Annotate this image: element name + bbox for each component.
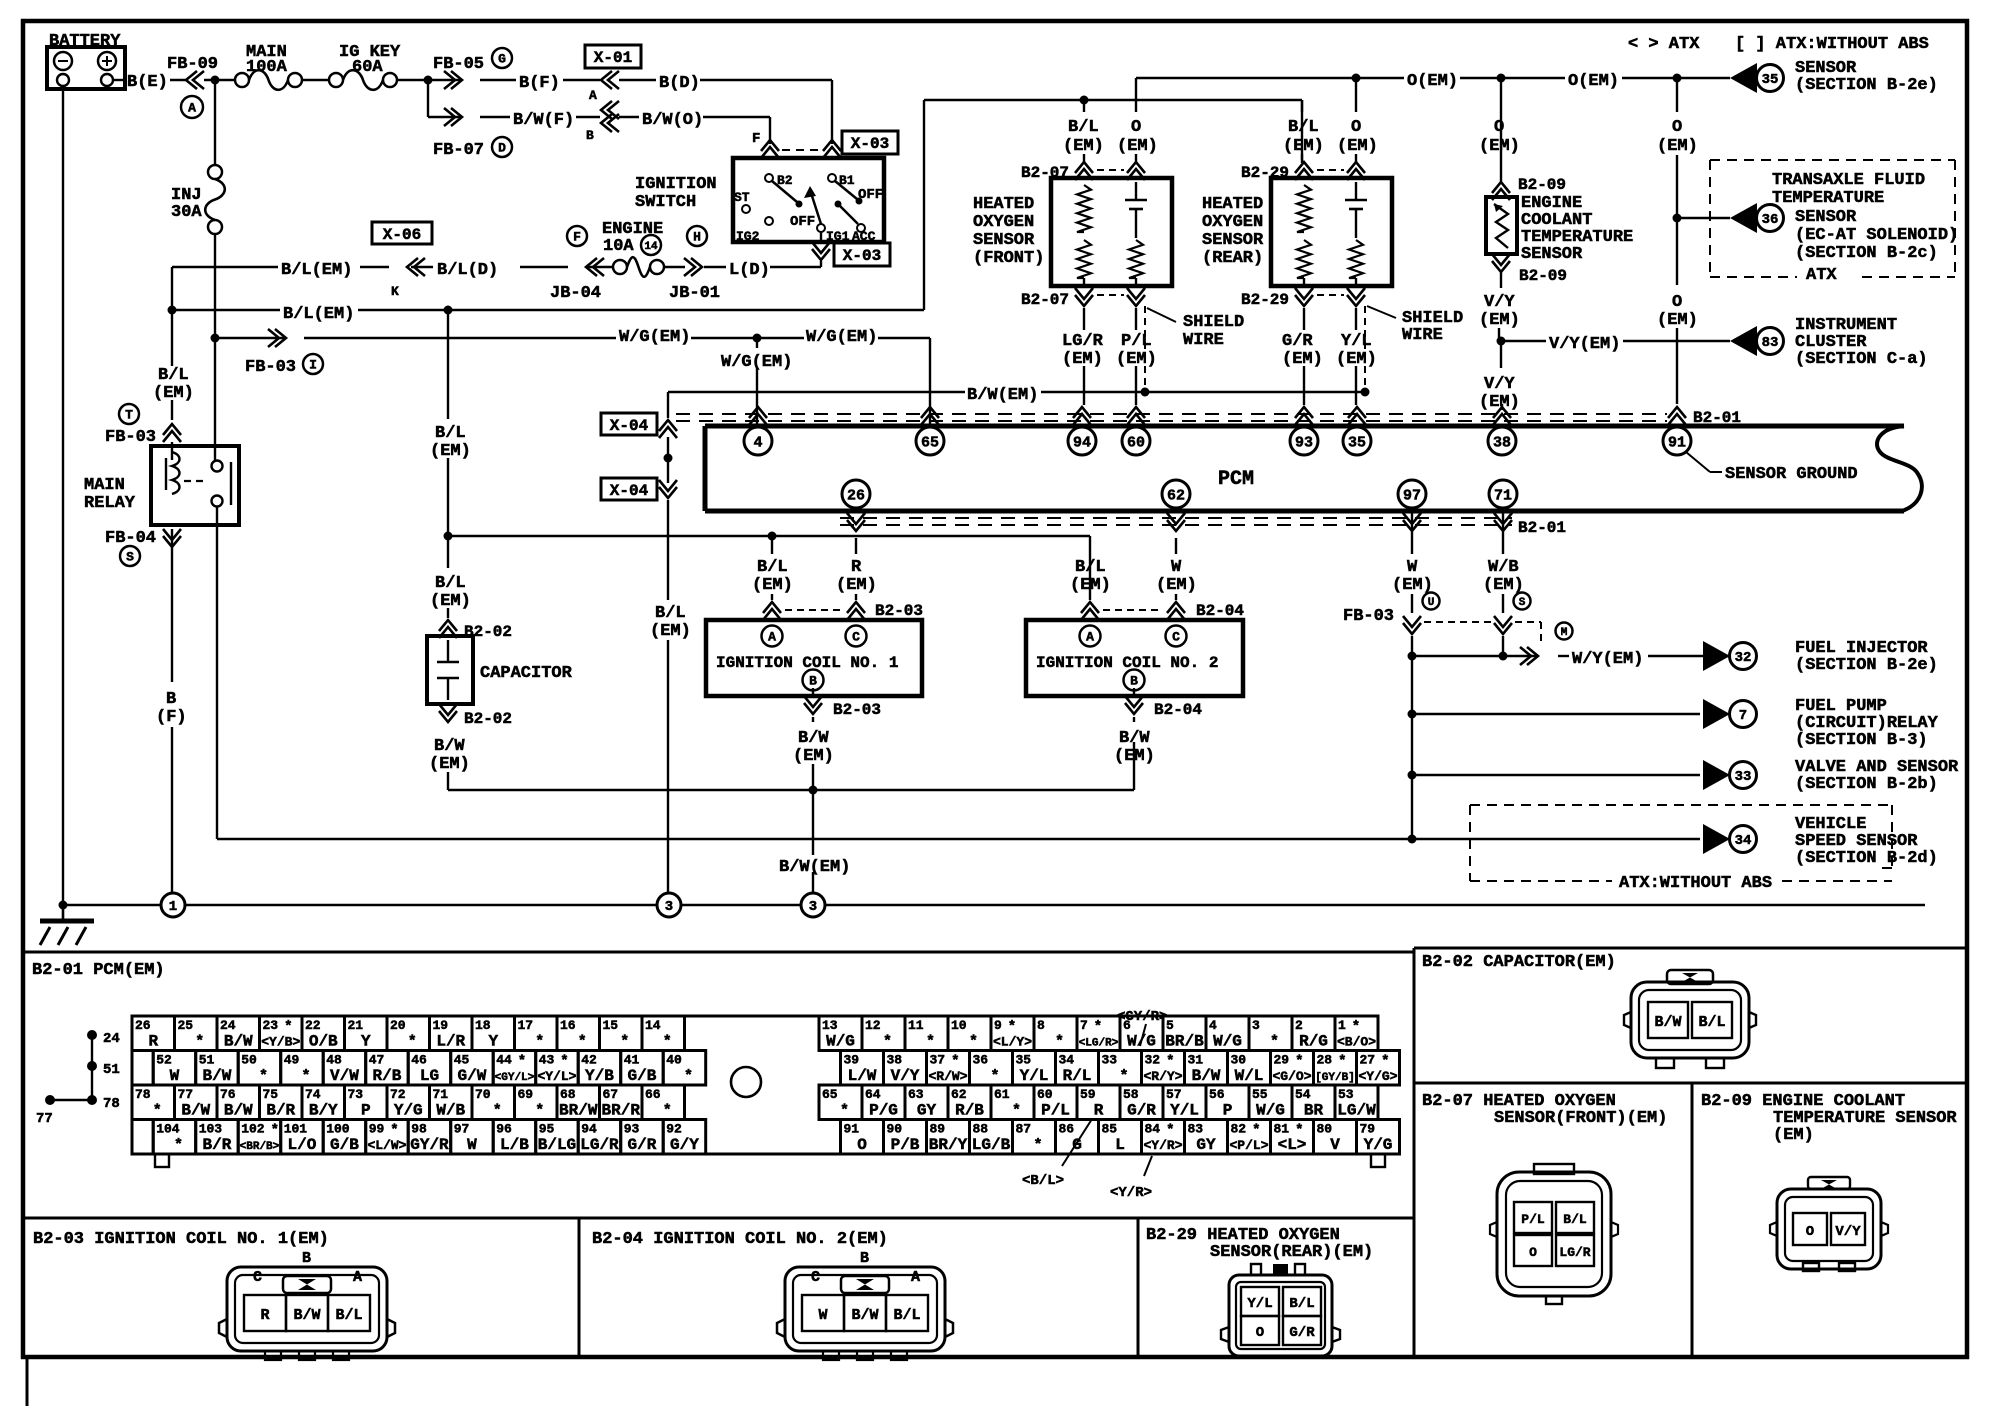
svg-text:B2-04: B2-04 [1196,602,1244,620]
circle S [1514,593,1531,610]
ATX without ABS dashed box [1470,804,1892,806]
svg-text:B/L: B/L [1288,118,1319,137]
junction node battery ground [62,89,64,905]
svg-text:91: 91 [844,1122,860,1137]
svg-text:20: 20 [390,1018,406,1033]
svg-text:Y/G: Y/G [394,1102,423,1120]
svg-text:78: 78 [103,1096,120,1112]
svg-text:B/W: B/W [1192,1067,1221,1085]
svg-text:<Y/G>: <Y/G> [1358,1069,1397,1084]
svg-text:21: 21 [348,1018,364,1033]
svg-text:101: 101 [284,1122,308,1137]
svg-text:*: * [1338,1054,1346,1070]
svg-text:(EM): (EM) [430,592,471,611]
connector X-06 chevron [411,266,433,268]
svg-text:11: 11 [908,1018,924,1033]
svg-text:O: O [1672,293,1682,312]
svg-text:55: 55 [1252,1087,1268,1102]
svg-text:X-04: X-04 [610,417,649,435]
svg-text:FB-07: FB-07 [433,141,484,160]
connector B2-09 chevron bottom [1492,261,1510,272]
label V/Y (EM) lower [1500,341,1502,368]
svg-text:X-04: X-04 [610,482,649,500]
svg-text:B2-09: B2-09 [1518,176,1566,194]
svg-text:B/W: B/W [1119,729,1150,748]
svg-text:*: * [195,1034,204,1051]
connector X-03 chevron top [823,140,841,151]
svg-text:76: 76 [220,1087,236,1102]
svg-text:(EM): (EM) [650,622,691,641]
svg-text:90: 90 [887,1122,903,1137]
junction node front shield [1141,388,1150,397]
svg-text:<Y/R>: <Y/R> [1143,1138,1182,1153]
svg-text:V/Y: V/Y [1484,375,1515,394]
wire coil1 A down [771,536,773,554]
panel divider B2-04|B2-29 [1137,1218,1140,1357]
svg-text:*: * [969,1034,978,1051]
PCM connector left block [132,1016,175,1051]
svg-text:B/L: B/L [335,1307,362,1324]
svg-text:L/R: L/R [436,1033,465,1051]
circle S relay [120,546,140,566]
svg-text:X-03: X-03 [843,247,881,265]
svg-text:(EM): (EM) [1116,350,1157,369]
svg-text:B/Y: B/Y [309,1102,338,1120]
svg-text:(EM): (EM) [429,755,470,774]
svg-text:*: * [1270,1034,1279,1051]
wire IG KEY to junction [397,79,435,81]
svg-text:R: R [1094,1102,1104,1120]
HO2S rear sensor element [1345,199,1367,202]
svg-text:W/Y(EM): W/Y(EM) [1572,650,1643,669]
svg-text:WIRE: WIRE [1402,326,1443,345]
svg-text:*: * [560,1054,568,1070]
svg-text:OFF: OFF [858,187,883,203]
svg-text:LG/R: LG/R [580,1136,619,1154]
wire X-04 down to splice 3 [667,500,669,600]
svg-text:*: * [883,1034,892,1051]
wire relay contact down to y=839 rail [216,507,218,839]
svg-text:7: 7 [1739,708,1747,724]
svg-text:B/L: B/L [757,558,788,577]
ignition switch terminal ST [742,205,750,213]
svg-text:[ ] ATX:WITHOUT ABS: [ ] ATX:WITHOUT ABS [1735,35,1929,54]
svg-text:<L/Y>: <L/Y> [993,1035,1032,1050]
svg-text:(EM): (EM) [1062,350,1103,369]
svg-text:SWITCH: SWITCH [635,193,696,212]
svg-text:V/Y(EM): V/Y(EM) [1549,335,1620,354]
svg-text:64: 64 [865,1087,881,1102]
svg-text:10: 10 [951,1018,967,1033]
arrow 7 FUEL PUMP RELAY [1703,699,1730,729]
relay input wire from INJ fuse [214,459,216,461]
svg-text:93: 93 [624,1122,640,1137]
svg-text:B/W: B/W [203,1067,232,1085]
wire W/G down to pin4 [756,338,758,348]
annotation B/L [1062,1119,1092,1166]
svg-text:G/R: G/R [1282,332,1313,351]
wire rear B/L down [1301,100,1303,112]
svg-text:O/B: O/B [309,1033,338,1051]
svg-text:33: 33 [1102,1053,1118,1068]
svg-text:SENSOR: SENSOR [1795,208,1857,227]
svg-text:60A: 60A [352,58,383,77]
label B(D) [619,79,656,81]
annotation Y/R [1144,1156,1152,1176]
svg-text:<G/O>: <G/O> [1272,1069,1311,1084]
connector X-04 box lower [601,478,657,500]
svg-text:IGNITION COIL NO. 1: IGNITION COIL NO. 1 [716,654,898,672]
rear shield callout [1367,306,1396,318]
B2-29 rear HO2S connector [1229,1275,1332,1356]
svg-text:(FRONT): (FRONT) [973,249,1044,268]
svg-text:BR/W: BR/W [559,1102,598,1120]
junction node sensor-ground O [1673,74,1682,83]
svg-text:O: O [1806,1224,1814,1240]
svg-text:(EM): (EM) [1773,1126,1814,1145]
svg-text:W: W [1171,558,1182,577]
svg-text:G/B: G/B [330,1136,359,1154]
svg-text:R/G: R/G [1299,1033,1328,1051]
wire B/L up right side to sensors [923,100,925,310]
svg-text:R: R [148,1033,158,1051]
svg-text:P: P [1223,1102,1233,1120]
svg-text:(SECTION B-2d): (SECTION B-2d) [1795,849,1938,868]
circle M [1556,623,1573,640]
svg-text:(EM): (EM) [1156,576,1197,595]
svg-text:82: 82 [1231,1122,1247,1137]
svg-text:SENSOR GROUND: SENSOR GROUND [1725,465,1858,484]
svg-text:WIRE: WIRE [1183,331,1224,350]
svg-text:<BR/B>: <BR/B> [240,1141,280,1153]
arrow 36 TRANSAXLE SENSOR [1730,203,1757,233]
svg-text:A: A [188,101,196,116]
svg-text:SENSOR(FRONT)(EM): SENSOR(FRONT)(EM) [1494,1109,1667,1128]
connector B2-02 chevron bottom [439,711,457,722]
svg-text:G/B: G/B [628,1067,657,1085]
svg-text:RELAY: RELAY [84,494,136,513]
HO2S front box [1051,178,1172,286]
svg-text:(EM): (EM) [1336,350,1377,369]
wire MAIN to IG KEY [302,79,329,81]
svg-text:(F): (F) [156,708,187,727]
svg-text:B2-04 IGNITION COIL NO. 2(EM): B2-04 IGNITION COIL NO. 2(EM) [592,1230,888,1249]
svg-text:OXYGEN: OXYGEN [1202,213,1263,232]
ignition switch IG1 output wire [820,232,822,242]
label B/L(D) [520,266,568,268]
svg-text:*: * [535,1034,544,1051]
circle G [492,48,512,68]
svg-text:39: 39 [844,1053,860,1068]
svg-text:65: 65 [921,435,939,452]
panel divider B2-02 bottom [1414,1082,1967,1085]
svg-text:23: 23 [263,1018,279,1033]
svg-text:4: 4 [1209,1018,1217,1033]
svg-text:<Y/R>: <Y/R> [1110,1185,1152,1201]
svg-text:FB-03: FB-03 [1343,607,1394,626]
svg-text:B/L: B/L [435,574,466,593]
svg-text:O(EM): O(EM) [1407,72,1458,91]
wire FB-09 to MAIN fuse [204,79,235,81]
svg-text:84: 84 [1145,1122,1161,1137]
svg-text:F: F [752,131,760,147]
svg-text:28: 28 [1317,1053,1333,1068]
svg-text:86: 86 [1059,1122,1075,1137]
svg-text:68: 68 [560,1087,576,1102]
wire B/L(EM) corner down [172,266,278,268]
svg-text:B2-01: B2-01 [1693,409,1741,427]
battery positive terminal [98,52,116,70]
svg-text:32: 32 [1145,1053,1161,1068]
svg-text:B2-02 CAPACITOR(EM): B2-02 CAPACITOR(EM) [1422,953,1616,972]
svg-text:(EM): (EM) [1479,137,1520,156]
connector FB-04 chevron [163,536,181,547]
svg-text:97: 97 [454,1122,470,1137]
wire V/Y(EM) to instrument cluster [1501,340,1546,342]
svg-text:R/B: R/B [373,1067,402,1085]
FB-03 dashed link [1424,621,1491,623]
svg-text:35: 35 [1348,435,1366,452]
connector X-04 chevron down [659,487,677,498]
panel divider right column top [1414,947,1967,950]
svg-text:1: 1 [169,899,177,915]
junction node B(F) split [424,76,433,85]
svg-text:Y/L: Y/L [1170,1102,1199,1120]
svg-text:*: * [1008,1019,1016,1035]
svg-text:S: S [1519,597,1526,609]
svg-text:37: 37 [930,1053,946,1068]
junction node V/Y [1497,337,1506,346]
connector B2-04 chevron bottom [1133,688,1135,698]
ignition switch wiper triangle [804,186,816,198]
svg-text:83: 83 [1188,1122,1204,1137]
svg-text:(REAR): (REAR) [1202,249,1263,268]
svg-text:B/L: B/L [655,604,686,623]
svg-text:(EM): (EM) [1283,137,1324,156]
svg-text:(EM): (EM) [1657,137,1698,156]
svg-text:(EM): (EM) [1483,576,1524,595]
svg-text:B/L(D): B/L(D) [437,261,498,280]
wire ECT O down [1500,78,1502,182]
svg-text:54: 54 [1295,1087,1311,1102]
circle T [119,404,139,424]
svg-text:W/G: W/G [1256,1102,1285,1120]
PCM connector right block [819,1016,862,1051]
B2-01 dashed bus bottom [840,517,1512,519]
svg-text:31: 31 [1188,1053,1204,1068]
wire W(EM) pin97 down [1411,508,1413,554]
svg-text:<Y/L>: <Y/L> [537,1069,576,1084]
wire G/R down to pin93 [1303,308,1305,330]
svg-text:CAPACITOR: CAPACITOR [480,664,573,683]
pin 91 [1668,407,1686,418]
arrow 34 VEHICLE SPEED SENSOR [1703,824,1730,854]
svg-text:BR/R: BR/R [602,1102,641,1120]
svg-text:<L/W>: <L/W> [367,1138,406,1153]
battery negative terminal [54,52,72,70]
svg-text:B2-09: B2-09 [1519,267,1567,285]
svg-text:74: 74 [305,1087,321,1102]
svg-text:Y: Y [361,1033,371,1051]
main relay dashed actuator link [184,480,206,482]
engine coolant temperature sensor box [1486,197,1517,254]
svg-text:33: 33 [1735,769,1752,785]
ignition switch terminal B2 [765,174,773,182]
svg-text:W/L: W/L [1235,1067,1264,1085]
svg-text:W/G: W/G [826,1033,855,1051]
ignition switch terminal B1 [828,174,836,182]
wire O(EM) top rail [1136,77,1404,79]
svg-text:V/Y: V/Y [1835,1224,1861,1240]
svg-text:98: 98 [411,1122,427,1137]
svg-text:HEATED: HEATED [1202,195,1263,214]
svg-text:<GY/L>: <GY/L> [495,1072,535,1084]
svg-text:Y: Y [488,1033,498,1051]
chevron M on W/Y wire [1527,647,1538,665]
svg-text:OFF: OFF [790,214,815,230]
svg-text:(SECTION B-2e): (SECTION B-2e) [1795,76,1938,95]
svg-text:L/B: L/B [500,1136,529,1154]
svg-text:13: 13 [822,1018,838,1033]
svg-text:*: * [926,1034,935,1051]
PCM connector gap edges and bolt hole [685,1015,820,1018]
svg-text:78: 78 [135,1087,151,1102]
svg-text:50: 50 [241,1053,257,1068]
svg-text:*: * [259,1068,268,1085]
svg-text:X-03: X-03 [851,135,889,153]
wire P/L down to pin60 [1135,308,1137,330]
svg-text:15: 15 [603,1018,619,1033]
B2-09 ECT connector [1777,1189,1881,1269]
coil connector shell at 307 [227,1267,387,1351]
junction node W/Y 1 [1408,652,1417,661]
svg-text:A: A [768,630,776,645]
svg-text:SHIELD: SHIELD [1183,313,1244,332]
svg-text:96: 96 [496,1122,512,1137]
svg-text:43: 43 [539,1053,555,1068]
svg-text:36: 36 [973,1053,989,1068]
svg-text:B: B [860,1250,869,1267]
svg-text:*: * [951,1054,959,1070]
wire capacitor branch vertical [447,310,449,419]
label W/G(EM) 1 [304,337,616,339]
svg-text:B: B [586,128,594,143]
svg-text:36: 36 [1762,212,1779,228]
label B/L(EM) on 310 line [176,309,280,311]
junction node valve and sensor [1408,771,1417,780]
svg-text:102: 102 [241,1122,265,1137]
svg-text:B/W: B/W [851,1307,878,1324]
ignition switch box [733,158,884,242]
svg-text:K: K [391,284,399,299]
svg-text:P/G: P/G [869,1102,898,1120]
circle I [303,354,323,374]
capacitor box [427,636,473,704]
svg-text:22: 22 [305,1018,321,1033]
HO2S front heater zigzag [1077,185,1091,232]
svg-text:Y/B: Y/B [585,1067,614,1085]
svg-text:<P/L>: <P/L> [1229,1138,1268,1153]
svg-text:U: U [1428,597,1435,609]
PCM right brace [1877,426,1922,511]
svg-text:TEMPERATURE: TEMPERATURE [1772,189,1884,208]
B2-02 capacitor connector [1631,982,1749,1058]
svg-text:66: 66 [645,1087,661,1102]
svg-text:C: C [852,630,860,645]
wire W/B(EM) pin71 down [1502,508,1504,554]
svg-text:48: 48 [326,1053,342,1068]
branch wire to FB-07 [427,80,429,117]
svg-text:V/Y: V/Y [891,1067,920,1085]
svg-text:<GY/R>: <GY/R> [1117,1009,1167,1025]
svg-text:B/W(O): B/W(O) [642,111,703,130]
ECT thermistor zigzag [1494,204,1508,248]
svg-text:B/L(EM): B/L(EM) [281,261,352,280]
svg-text:103: 103 [199,1122,223,1137]
svg-text:60: 60 [1037,1087,1053,1102]
svg-text:OXYGEN: OXYGEN [973,213,1034,232]
svg-text:C: C [253,1269,262,1286]
main relay coil [172,452,180,494]
svg-text:IG2: IG2 [736,229,760,244]
rear shield dashed wire [1364,306,1366,392]
panel divider B2-07|B2-09 [1691,1083,1694,1357]
svg-text:*: * [518,1054,526,1070]
connector JB-01 chevron [691,258,702,276]
svg-text:(SECTION C-a): (SECTION C-a) [1795,350,1928,369]
connector X-01 chevron A [563,79,600,81]
svg-text:8: 8 [1037,1018,1045,1033]
connector B2-04 chevrons [1081,602,1099,613]
svg-text:*: * [1252,1123,1260,1139]
arrow 35 SENSOR [1730,63,1757,93]
svg-text:IGNITION COIL NO. 2: IGNITION COIL NO. 2 [1036,654,1218,672]
svg-text:B/W: B/W [224,1102,253,1120]
svg-text:B/L: B/L [1698,1014,1725,1031]
svg-text:3: 3 [1252,1018,1260,1033]
svg-text:*: * [620,1034,629,1051]
svg-text:X-06: X-06 [383,226,421,244]
svg-text:*: * [493,1103,502,1120]
junction node B/L to coils [444,532,453,541]
junction node rear shield [1361,388,1370,397]
wire coil1 C down from pin26 [855,508,857,554]
svg-text:V/Y: V/Y [1484,293,1515,312]
ignition switch arm B1-OFF [835,181,857,199]
svg-text:60: 60 [1127,435,1145,452]
svg-text:*: * [1166,1123,1174,1139]
svg-text:SENSOR: SENSOR [973,231,1035,250]
dashed link F to X-03 [782,149,820,151]
svg-text:R/B: R/B [955,1102,984,1120]
svg-text:P/L: P/L [1041,1102,1070,1120]
pin 60 [1127,407,1145,418]
wire to valve and sensor [1412,774,1700,777]
svg-text:83: 83 [1762,335,1779,351]
circle D [492,137,512,157]
svg-text:*: * [1033,1137,1042,1154]
svg-text:46: 46 [411,1053,427,1068]
svg-text:62: 62 [1167,488,1185,505]
wire B/W(EM) down to splice 3 [812,790,814,893]
svg-text:B2-03 IGNITION COIL NO. 1(EM): B2-03 IGNITION COIL NO. 1(EM) [33,1230,329,1249]
svg-text:GY/R: GY/R [410,1136,449,1154]
svg-text:V: V [1330,1136,1340,1154]
coil connector shell at 865 [785,1267,945,1351]
svg-text:IGNITION: IGNITION [635,175,717,194]
svg-text:B/W(F): B/W(F) [513,111,574,130]
wire rear O down [1355,78,1357,112]
